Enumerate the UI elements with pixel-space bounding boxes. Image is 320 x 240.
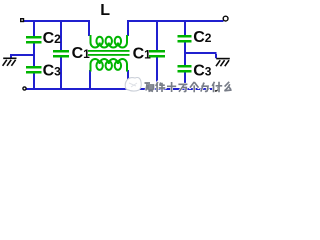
wire branch C2/C3 left vertical xyxy=(33,20,35,88)
wire top right horizontal xyxy=(127,20,224,22)
inductor L bottom winding xyxy=(91,59,128,72)
capacitor C3 left xyxy=(26,69,42,72)
svg-text:C1: C1 xyxy=(72,45,91,62)
wire ground right horizontal xyxy=(184,52,217,54)
terminal bottom-right xyxy=(213,86,218,91)
watermark text halo xyxy=(145,82,232,92)
svg-text:L: L xyxy=(100,2,110,19)
wire ground left stub xyxy=(10,54,12,58)
capacitor C1 right xyxy=(149,53,165,56)
wire ground left horizontal xyxy=(10,54,34,56)
svg-text:C2: C2 xyxy=(43,30,62,47)
svg-text:C3: C3 xyxy=(193,63,212,80)
inductor L core lines xyxy=(88,50,130,52)
capacitor C3 right xyxy=(178,68,192,71)
wire branch C1 left vertical xyxy=(60,20,62,88)
wire choke top-left vertical xyxy=(88,20,90,36)
wire branch C1 right vertical xyxy=(156,20,158,88)
terminal top-left xyxy=(21,19,24,22)
watermark text strokes xyxy=(145,82,232,92)
svg-text:C1: C1 xyxy=(133,46,152,63)
capacitor C1 left xyxy=(53,53,69,56)
terminal top-right xyxy=(223,16,228,21)
wire branch C2/C3 right vertical xyxy=(184,20,186,88)
svg-text:C3: C3 xyxy=(43,63,62,80)
wire choke bottom-right vertical xyxy=(127,70,129,89)
wire choke top-right vertical xyxy=(127,20,129,36)
inductor L (common-mode choke) top winding xyxy=(91,35,128,48)
terminal bottom-left xyxy=(23,87,26,90)
capacitor C2 right xyxy=(178,38,192,41)
ground right xyxy=(216,59,230,67)
wire ground right stub xyxy=(215,54,217,58)
wire choke bottom-left vertical xyxy=(89,70,91,89)
watermark logo xyxy=(125,78,141,92)
wire bottom horizontal xyxy=(25,88,213,90)
capacitor C2 left xyxy=(26,39,42,42)
svg-text:C2: C2 xyxy=(193,29,212,46)
ground left xyxy=(3,58,17,66)
wire top left horizontal xyxy=(22,20,90,22)
